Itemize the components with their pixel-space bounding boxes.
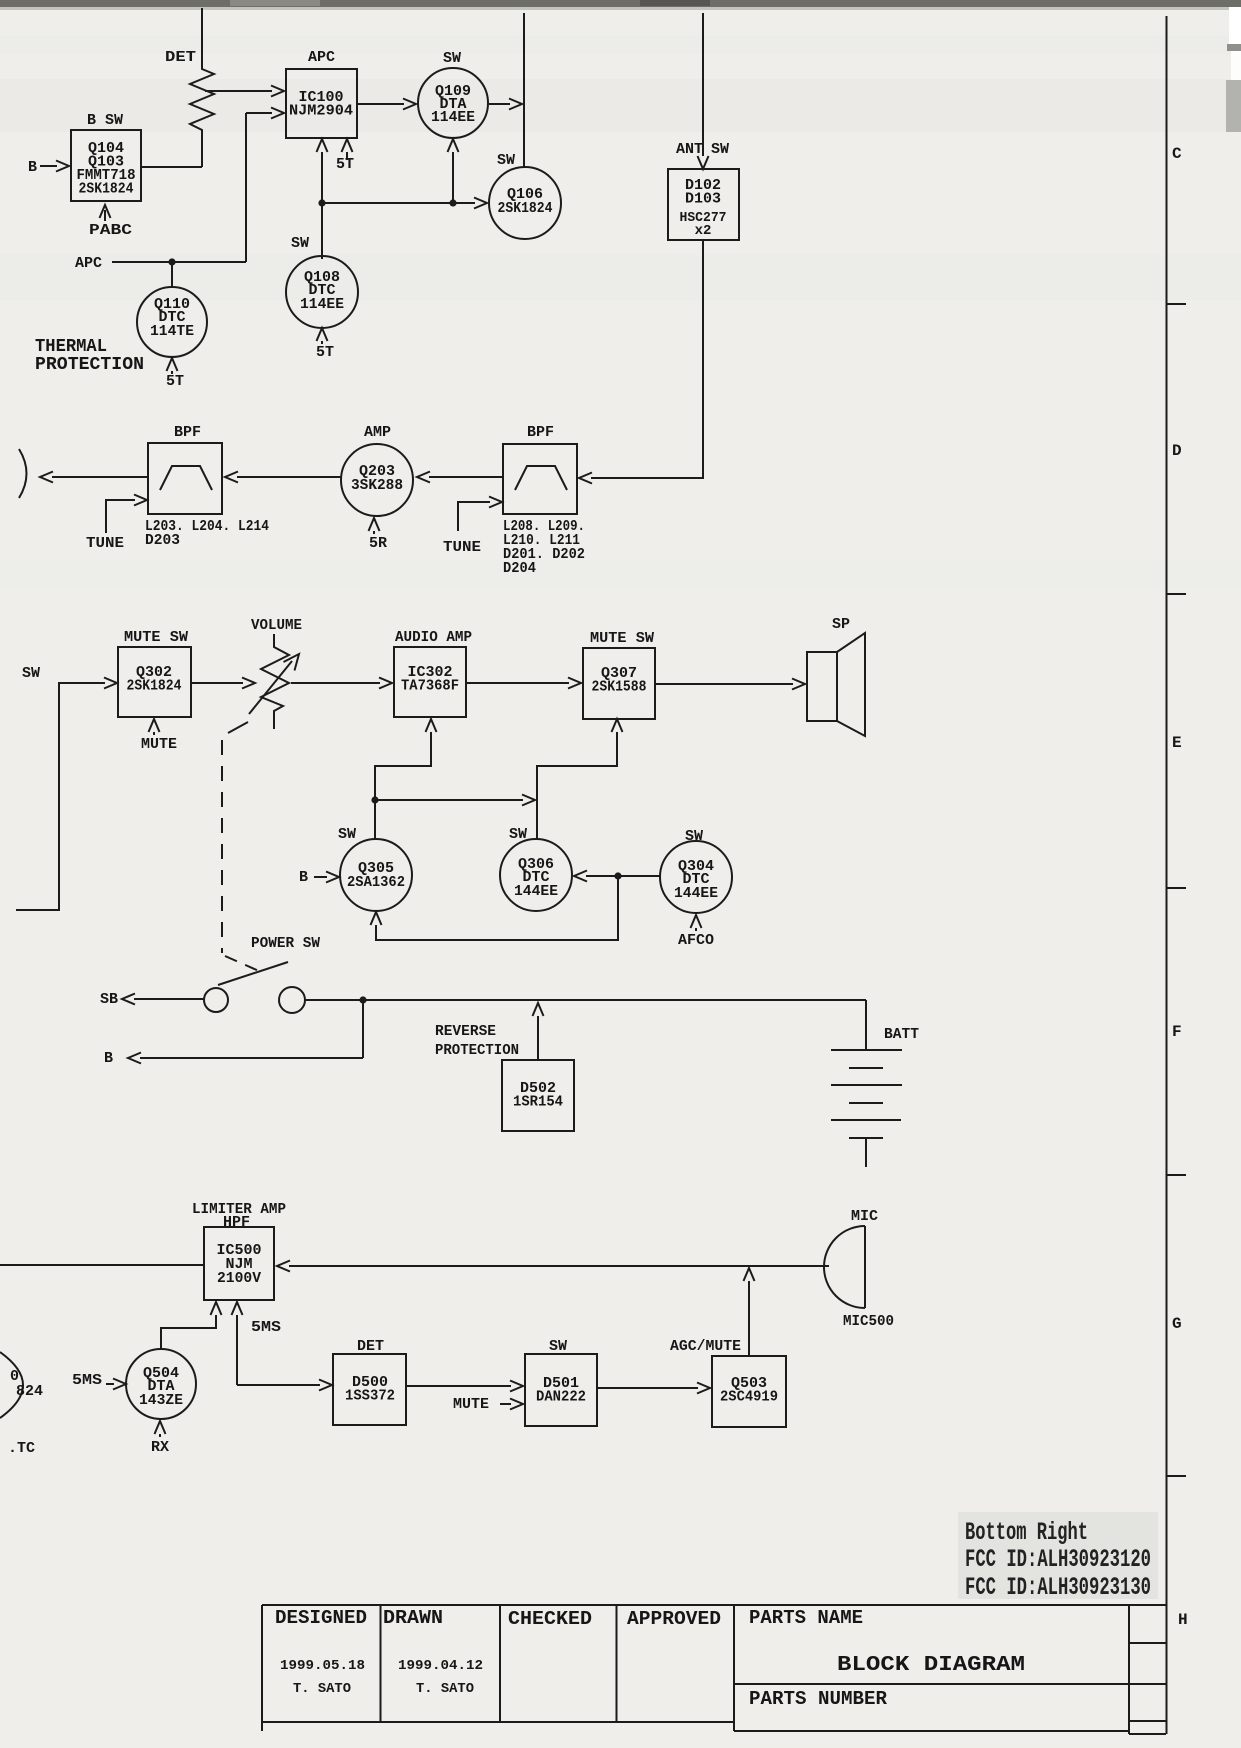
svg-text:REVERSE: REVERSE (435, 1023, 496, 1040)
arrow ANT SW bus into D102 (676, 13, 729, 169)
arrow RX into Q504 bottom (151, 1421, 169, 1456)
speaker SP (807, 616, 865, 736)
arrow B output lower (104, 1000, 363, 1067)
arrow Q203 to BPF1 (225, 472, 341, 483)
block D500 DET (333, 1338, 406, 1425)
arrow AFCO into Q304 bottom (678, 915, 714, 949)
svg-text:SW: SW (443, 50, 461, 67)
transistor Q110 THERMAL PROTECTION (35, 287, 207, 375)
svg-text:2SC4919: 2SC4919 (720, 1389, 778, 1406)
block IC500 LIMITER AMP HPF (192, 1201, 286, 1300)
transistor Q305 SW (338, 826, 412, 911)
svg-text:SW: SW (497, 152, 515, 169)
arrow DET to IC100 (205, 86, 284, 97)
arrow MUTE into D501 (453, 1396, 523, 1413)
border tick 3 (1166, 887, 1186, 889)
svg-text:DRAWN: DRAWN (383, 1607, 443, 1629)
arrow IC100 to Q109 (357, 99, 416, 110)
svg-text:DAN222: DAN222 (536, 1389, 586, 1406)
svg-text:SW: SW (509, 826, 527, 843)
svg-text:FCC ID:ALH30923120: FCC ID:ALH30923120 (965, 1545, 1151, 1574)
arrow D502 up to power wire (533, 1003, 544, 1060)
svg-text:SW: SW (711, 141, 729, 158)
arrow 5T into Q110 bottom (166, 358, 184, 390)
svg-text:DET: DET (357, 1338, 384, 1355)
svg-text:143ZE: 143ZE (139, 1392, 183, 1409)
block Q307 MUTE SW (583, 630, 655, 719)
svg-text:5T: 5T (336, 156, 354, 173)
designed date (280, 1658, 365, 1674)
svg-text:D103: D103 (685, 191, 721, 208)
svg-text:TUNE: TUNE (86, 535, 124, 552)
svg-text:B: B (299, 869, 308, 886)
wire Q305 up into IC302 bottom (371, 719, 436, 840)
svg-text:114EE: 114EE (431, 109, 475, 126)
border tick 2 (1166, 593, 1186, 595)
svg-text:MUTE SW: MUTE SW (124, 629, 188, 646)
svg-text:PROTECTION: PROTECTION (435, 1042, 519, 1059)
svg-text:2SK1588: 2SK1588 (592, 679, 647, 696)
arrow Q108 up into IC100 bottom (317, 139, 328, 259)
svg-text:DESIGNED: DESIGNED (275, 1607, 367, 1629)
title block frame (262, 1605, 1166, 1734)
block D102/D103 (668, 169, 739, 240)
svg-text:NJM2904: NJM2904 (289, 103, 353, 120)
wire switch to battery (305, 996, 866, 1003)
wire D102 down to BPF2 with arrow (579, 240, 703, 484)
arrow 5T stub into IC100 bottom (336, 139, 354, 173)
border tick 1 (1166, 303, 1186, 305)
svg-text:B: B (104, 1050, 113, 1067)
svg-text:AUDIO AMP: AUDIO AMP (395, 629, 472, 646)
filter BPF1 L203 (148, 424, 222, 514)
wire volume to IC302 (291, 678, 392, 689)
svg-text:BPF: BPF (527, 424, 554, 441)
label REVERSE PROTECTION (435, 1023, 519, 1059)
svg-text:THERMAL: THERMAL (35, 337, 107, 357)
svg-text:MUTE SW: MUTE SW (590, 630, 654, 647)
arrow B into Q104 (28, 159, 69, 176)
title block header APPROVED (627, 1608, 721, 1630)
arrow B into Q305 (299, 869, 339, 886)
microphone MIC500 (824, 1208, 894, 1330)
svg-text:PROTECTION: PROTECTION (35, 355, 144, 375)
svg-text:SW: SW (22, 665, 40, 682)
block Q503 AGC/MUTE (670, 1338, 786, 1427)
svg-text:F: F (1172, 1023, 1182, 1041)
svg-text:1SR154: 1SR154 (513, 1094, 563, 1111)
wire Q306 up into Q307 bottom (537, 719, 623, 840)
svg-text:T. SATO: T. SATO (416, 1681, 474, 1697)
wire Q104 to DET (141, 166, 202, 168)
battery BATT (831, 1000, 919, 1167)
svg-text:2SK1824: 2SK1824 (498, 200, 553, 217)
arrow 5MS stub into IC500 bottom and wire to D500 (232, 1302, 282, 1385)
scanner edge dark strip top (0, 0, 1241, 10)
svg-text:E: E (1172, 734, 1182, 752)
svg-text:D203: D203 (145, 532, 180, 549)
svg-text:D204: D204 (503, 560, 536, 577)
arrow IC302 to Q307 (466, 678, 581, 689)
wire APC node to Q110 (171, 262, 173, 287)
svg-text:SW: SW (338, 826, 356, 843)
svg-text:APC: APC (308, 49, 335, 66)
svg-text:5T: 5T (316, 344, 334, 361)
zone letter H (1178, 1611, 1188, 1629)
svg-text:2SA1362: 2SA1362 (347, 874, 405, 891)
svg-text:SW: SW (291, 235, 309, 252)
svg-text:DET: DET (165, 49, 196, 66)
svg-text:B: B (28, 159, 37, 176)
svg-text:5MS: 5MS (72, 1372, 102, 1389)
transistor Q500 clipped at page edge (0, 1352, 43, 1457)
svg-text:HPF: HPF (223, 1214, 250, 1231)
arrow D501 to Q503 (597, 1383, 710, 1394)
antenna bus wire vertical (523, 13, 525, 168)
block Q104/Q103 B SW (71, 112, 141, 201)
svg-text:114TE: 114TE (150, 323, 194, 340)
arrow Q503 up to mic line (744, 1268, 755, 1356)
border tick 5 (1166, 1475, 1186, 1477)
mechanical link volume to power switch (dashed) (222, 722, 320, 971)
wire 5MS line to D500 with arrow (237, 1380, 332, 1391)
svg-text:MIC: MIC (851, 1208, 878, 1225)
zone letter C (1172, 145, 1182, 163)
svg-text:1999.04.12: 1999.04.12 (398, 1658, 483, 1674)
svg-text:G: G (1172, 1315, 1182, 1333)
filter BPF2 L208 (503, 424, 577, 514)
svg-text:MUTE: MUTE (453, 1396, 489, 1413)
page edge artifacts right (1226, 7, 1241, 132)
svg-text:D: D (1172, 442, 1182, 460)
svg-text:x2: x2 (695, 223, 712, 239)
arrow Q504 path into IC500 bottom (161, 1302, 222, 1350)
svg-text:PARTS NUMBER: PARTS NUMBER (749, 1688, 888, 1710)
svg-text:T. SATO: T. SATO (293, 1681, 351, 1697)
zone letter F (1172, 1023, 1182, 1041)
transistor Q306 SW (500, 826, 572, 911)
arrow Q109 to antenna bus (489, 99, 522, 110)
zone letter G (1172, 1315, 1182, 1333)
svg-text:BATT: BATT (884, 1026, 919, 1043)
potentiometer VOLUME (249, 617, 302, 729)
svg-text:APC: APC (75, 255, 102, 272)
arrow BPF2 to Q203 (417, 472, 503, 483)
arrow Q307 to speaker (655, 679, 805, 690)
svg-text:VOLUME: VOLUME (251, 617, 302, 634)
transistor Q504 (126, 1349, 196, 1419)
svg-text:CHECKED: CHECKED (508, 1608, 592, 1630)
svg-text:H: H (1178, 1611, 1188, 1629)
svg-text:1SS372: 1SS372 (345, 1388, 395, 1405)
title block header DESIGNED (275, 1607, 367, 1629)
svg-text:AFCO: AFCO (678, 932, 714, 949)
svg-text:114EE: 114EE (300, 296, 344, 313)
designed name T.SATO (293, 1681, 351, 1697)
svg-text:.TC: .TC (8, 1440, 35, 1457)
svg-text:RX: RX (151, 1439, 169, 1456)
svg-text:144EE: 144EE (674, 885, 718, 902)
transistor Q109 SW (418, 50, 488, 138)
wire node to Q306 branch with arrow (375, 795, 535, 806)
wire power feed to Q305 bottom (371, 876, 619, 940)
svg-text:2100V: 2100V (217, 1270, 261, 1287)
svg-text:AGC/MUTE: AGC/MUTE (670, 1338, 741, 1355)
drawn date (398, 1658, 483, 1674)
svg-text:5T: 5T (166, 373, 184, 390)
wire APC with label (75, 108, 284, 273)
transistor Q203 AMP (341, 424, 413, 516)
drawn name T.SATO (416, 1681, 474, 1697)
wire mic line with arrow into IC500 right (277, 1261, 829, 1272)
block IC100 APC (286, 49, 357, 138)
title block header DRAWN (383, 1607, 443, 1629)
svg-text:SP: SP (832, 616, 850, 633)
svg-text:2SK1824: 2SK1824 (79, 181, 134, 198)
title block header CHECKED (508, 1608, 592, 1630)
wire SW input to Q302 (16, 665, 117, 910)
right drawing border (1166, 16, 1168, 1734)
antenna arc (19, 449, 27, 498)
block D502 1SR154 (502, 1060, 574, 1131)
svg-text:TUNE: TUNE (443, 539, 481, 556)
svg-text:TA7368F: TA7368F (401, 678, 459, 695)
svg-text:BLOCK DIAGRAM: BLOCK DIAGRAM (837, 1654, 1025, 1677)
title block header PARTS NAME (749, 1607, 863, 1629)
arrow node up into Q109 bottom (448, 139, 459, 203)
junction node on APC wire (168, 258, 175, 265)
transistor Q108 SW (286, 235, 358, 328)
svg-text:B SW: B SW (87, 112, 123, 129)
svg-text:PABC: PABC (89, 222, 132, 239)
value label L203 L204 L214 D203 (145, 518, 269, 549)
zone letter E (1172, 734, 1182, 752)
svg-text:MIC500: MIC500 (843, 1313, 894, 1330)
block IC302 AUDIO AMP (394, 629, 472, 717)
arrow BPF1 to antenna (40, 472, 148, 483)
title block header PARTS NUMBER (749, 1688, 888, 1710)
value label L208 L209 L210 L211 D201 D202 D204 (503, 518, 585, 577)
svg-text:BPF: BPF (174, 424, 201, 441)
arrow TUNE into BPF2 (443, 497, 502, 557)
svg-text:ANT: ANT (676, 141, 703, 158)
resistor DET with top feed wire (165, 8, 214, 167)
parts name BLOCK DIAGRAM (837, 1654, 1025, 1677)
svg-text:824: 824 (16, 1383, 43, 1400)
svg-text:SW: SW (685, 828, 703, 845)
arrow 5T into Q108 bottom (316, 328, 334, 361)
svg-text:C: C (1172, 145, 1182, 163)
block D501 SW (525, 1338, 597, 1426)
arrow Q302 to volume (191, 678, 255, 689)
transistor Q106 SW (489, 152, 561, 239)
wire Q304 to Q306 with arrow and node (574, 871, 660, 882)
arrow TUNE into BPF1 (86, 495, 147, 553)
arrow 5MS into Q504 left (72, 1372, 126, 1390)
transistor Q304 SW (660, 828, 732, 913)
svg-text:1999.05.18: 1999.05.18 (280, 1658, 365, 1674)
svg-text:144EE: 144EE (514, 883, 558, 900)
arrow MUTE into Q302 bottom (141, 719, 177, 753)
wire audio line into IC500 left (0, 1264, 204, 1266)
svg-text:5R: 5R (369, 535, 387, 552)
arrow D500 to D501 (406, 1381, 523, 1392)
svg-text:PARTS NAME: PARTS NAME (749, 1607, 863, 1629)
arrow PABC into Q104 bottom (89, 205, 132, 239)
svg-text:3SK288: 3SK288 (351, 477, 403, 494)
switch POWER SW contacts (204, 962, 305, 1013)
svg-text:2SK1824: 2SK1824 (127, 678, 182, 695)
FCC ID label panel (958, 1512, 1158, 1602)
arrow SB output (100, 991, 204, 1008)
svg-text:SB: SB (100, 991, 118, 1008)
svg-text:5MS: 5MS (251, 1319, 281, 1336)
svg-text:FCC ID:ALH30923130: FCC ID:ALH30923130 (965, 1573, 1151, 1602)
svg-text:Bottom Right: Bottom Right (965, 1518, 1088, 1547)
svg-text:AMP: AMP (364, 424, 391, 441)
wire node bus to Q106 with arrow (318, 198, 487, 209)
svg-text:MUTE: MUTE (141, 736, 177, 753)
svg-text:SW: SW (549, 1338, 567, 1355)
zone letter D (1172, 442, 1182, 460)
block Q302 MUTE SW (118, 629, 191, 717)
svg-text:APPROVED: APPROVED (627, 1608, 721, 1630)
arrow 5R into Q203 bottom (369, 518, 388, 552)
border tick 4 (1166, 1174, 1186, 1176)
svg-text:POWER SW: POWER SW (251, 935, 320, 952)
